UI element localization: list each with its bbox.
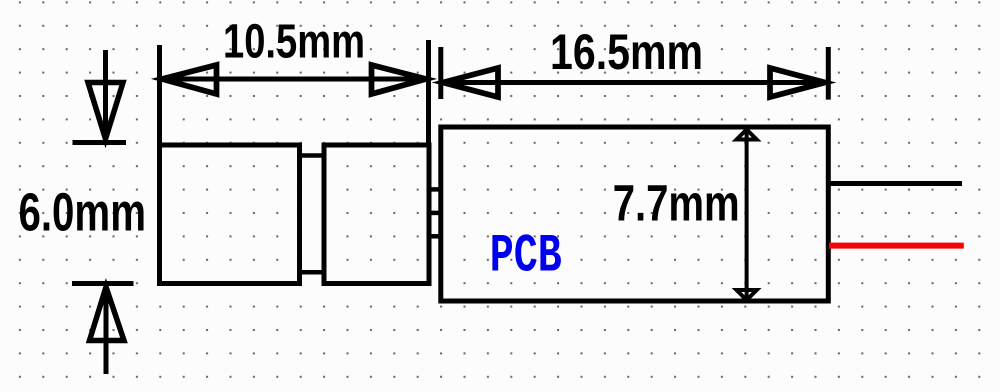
dimension line 7.7mm	[745, 130, 749, 301]
motor can (left rectangle)	[160, 145, 300, 284]
neck top line	[297, 153, 326, 158]
6.0mm bottom arrow shaft	[104, 287, 109, 374]
extension line right of 10.5mm	[426, 40, 431, 145]
red lead wire	[829, 243, 964, 249]
black lead wire	[829, 181, 962, 186]
terminal pin 1	[429, 187, 441, 192]
extension line right of 16.5mm	[826, 47, 831, 100]
dimension line 10.5mm	[162, 77, 426, 82]
6.0mm top reference bar	[73, 140, 127, 145]
svg-text:6.0mm: 6.0mm	[19, 183, 147, 243]
6.0mm bottom reference bar	[72, 281, 134, 286]
motor end block (right rectangle)	[324, 145, 429, 284]
svg-text:10.5mm: 10.5mm	[223, 16, 365, 69]
extension line left of 16.5mm	[438, 47, 443, 99]
6.0mm top arrow shaft	[103, 50, 108, 139]
terminal pin 3	[429, 234, 441, 239]
6.0mm top arrowhead (open, down)	[88, 83, 123, 140]
dimension line 16.5mm	[443, 80, 825, 85]
svg-text:PCB: PCB	[490, 227, 562, 288]
terminal pin 2	[429, 211, 441, 216]
arrowhead 7.7mm top	[737, 130, 757, 140]
arrowhead 10.5mm left	[162, 65, 217, 94]
svg-text:16.5mm: 16.5mm	[550, 24, 703, 80]
PCB rectangle	[441, 127, 829, 301]
arrowhead 16.5mm right	[770, 68, 825, 97]
arrowhead 7.7mm bottom	[737, 290, 757, 300]
arrowhead 10.5mm right	[372, 65, 427, 94]
svg-text:7.7mm: 7.7mm	[613, 175, 740, 232]
6.0mm bottom arrowhead (open, up)	[90, 287, 125, 341]
neck bottom line	[297, 270, 326, 275]
arrowhead 16.5mm left	[443, 68, 498, 97]
extension line left of 10.5mm	[157, 45, 162, 145]
